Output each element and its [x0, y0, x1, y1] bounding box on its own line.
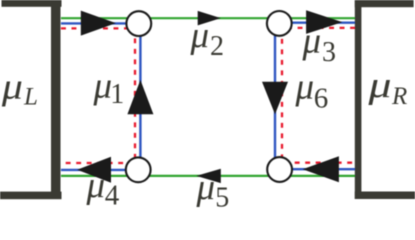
label mu1	[93, 66, 125, 110]
arrow mu1 (up)	[127, 80, 153, 114]
svg-text:L: L	[23, 84, 38, 111]
svg-text:1: 1	[110, 79, 124, 110]
left reservoir bracket muL	[0, 0, 62, 199]
blue wire top-right	[279, 22, 355, 24]
node top-right	[267, 11, 292, 36]
svg-text:μ: μ	[1, 66, 23, 107]
svg-text:μ: μ	[367, 65, 391, 106]
arrow top-right (right)	[306, 10, 342, 34]
svg-text:μ: μ	[190, 15, 210, 56]
svg-text:3: 3	[322, 37, 336, 68]
svg-text:6: 6	[314, 82, 329, 114]
label mu4	[86, 165, 120, 211]
node bottom-left	[126, 157, 151, 182]
label mu2	[190, 15, 225, 62]
red dashed return path right	[282, 28, 355, 163]
node bottom-right	[267, 157, 292, 182]
arrow mu6 (down)	[262, 82, 288, 115]
svg-text:μ: μ	[196, 167, 216, 207]
svg-text:μ: μ	[93, 66, 113, 107]
blue wire right vertical	[274, 23, 276, 170]
red dashed return path left	[61, 28, 135, 163]
right reservoir bracket muR	[355, 0, 415, 199]
label muL	[1, 66, 38, 111]
svg-text:μ: μ	[302, 21, 322, 62]
svg-text:4: 4	[105, 179, 120, 207]
node top-left	[126, 11, 151, 36]
arrow mu2 (right)	[198, 11, 221, 26]
svg-text:R: R	[391, 83, 407, 110]
arrow mu5 (left)	[196, 169, 221, 183]
label mu5	[196, 167, 230, 213]
label mu6	[295, 66, 329, 114]
blue wire bottom-left	[61, 169, 139, 171]
svg-text:μ: μ	[295, 66, 315, 107]
green wire bottom	[61, 175, 355, 177]
blue wire bottom-right	[279, 168, 355, 170]
arrow top-left (right)	[81, 11, 116, 36]
label mu3	[302, 21, 337, 69]
arrow bottom-left (left)	[77, 157, 111, 183]
svg-text:μ: μ	[86, 165, 106, 206]
blue wire top-left	[61, 22, 139, 24]
green wire top	[61, 17, 355, 19]
blue wire left vertical	[139, 23, 141, 170]
arrow bottom-right (left)	[303, 156, 339, 182]
svg-text:5: 5	[215, 182, 229, 207]
label muR	[367, 65, 407, 110]
svg-text:2: 2	[210, 31, 224, 62]
